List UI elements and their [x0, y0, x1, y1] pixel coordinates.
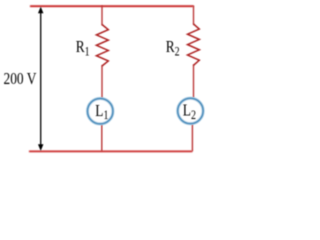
svg-text:200 V: 200 V — [4, 69, 37, 88]
